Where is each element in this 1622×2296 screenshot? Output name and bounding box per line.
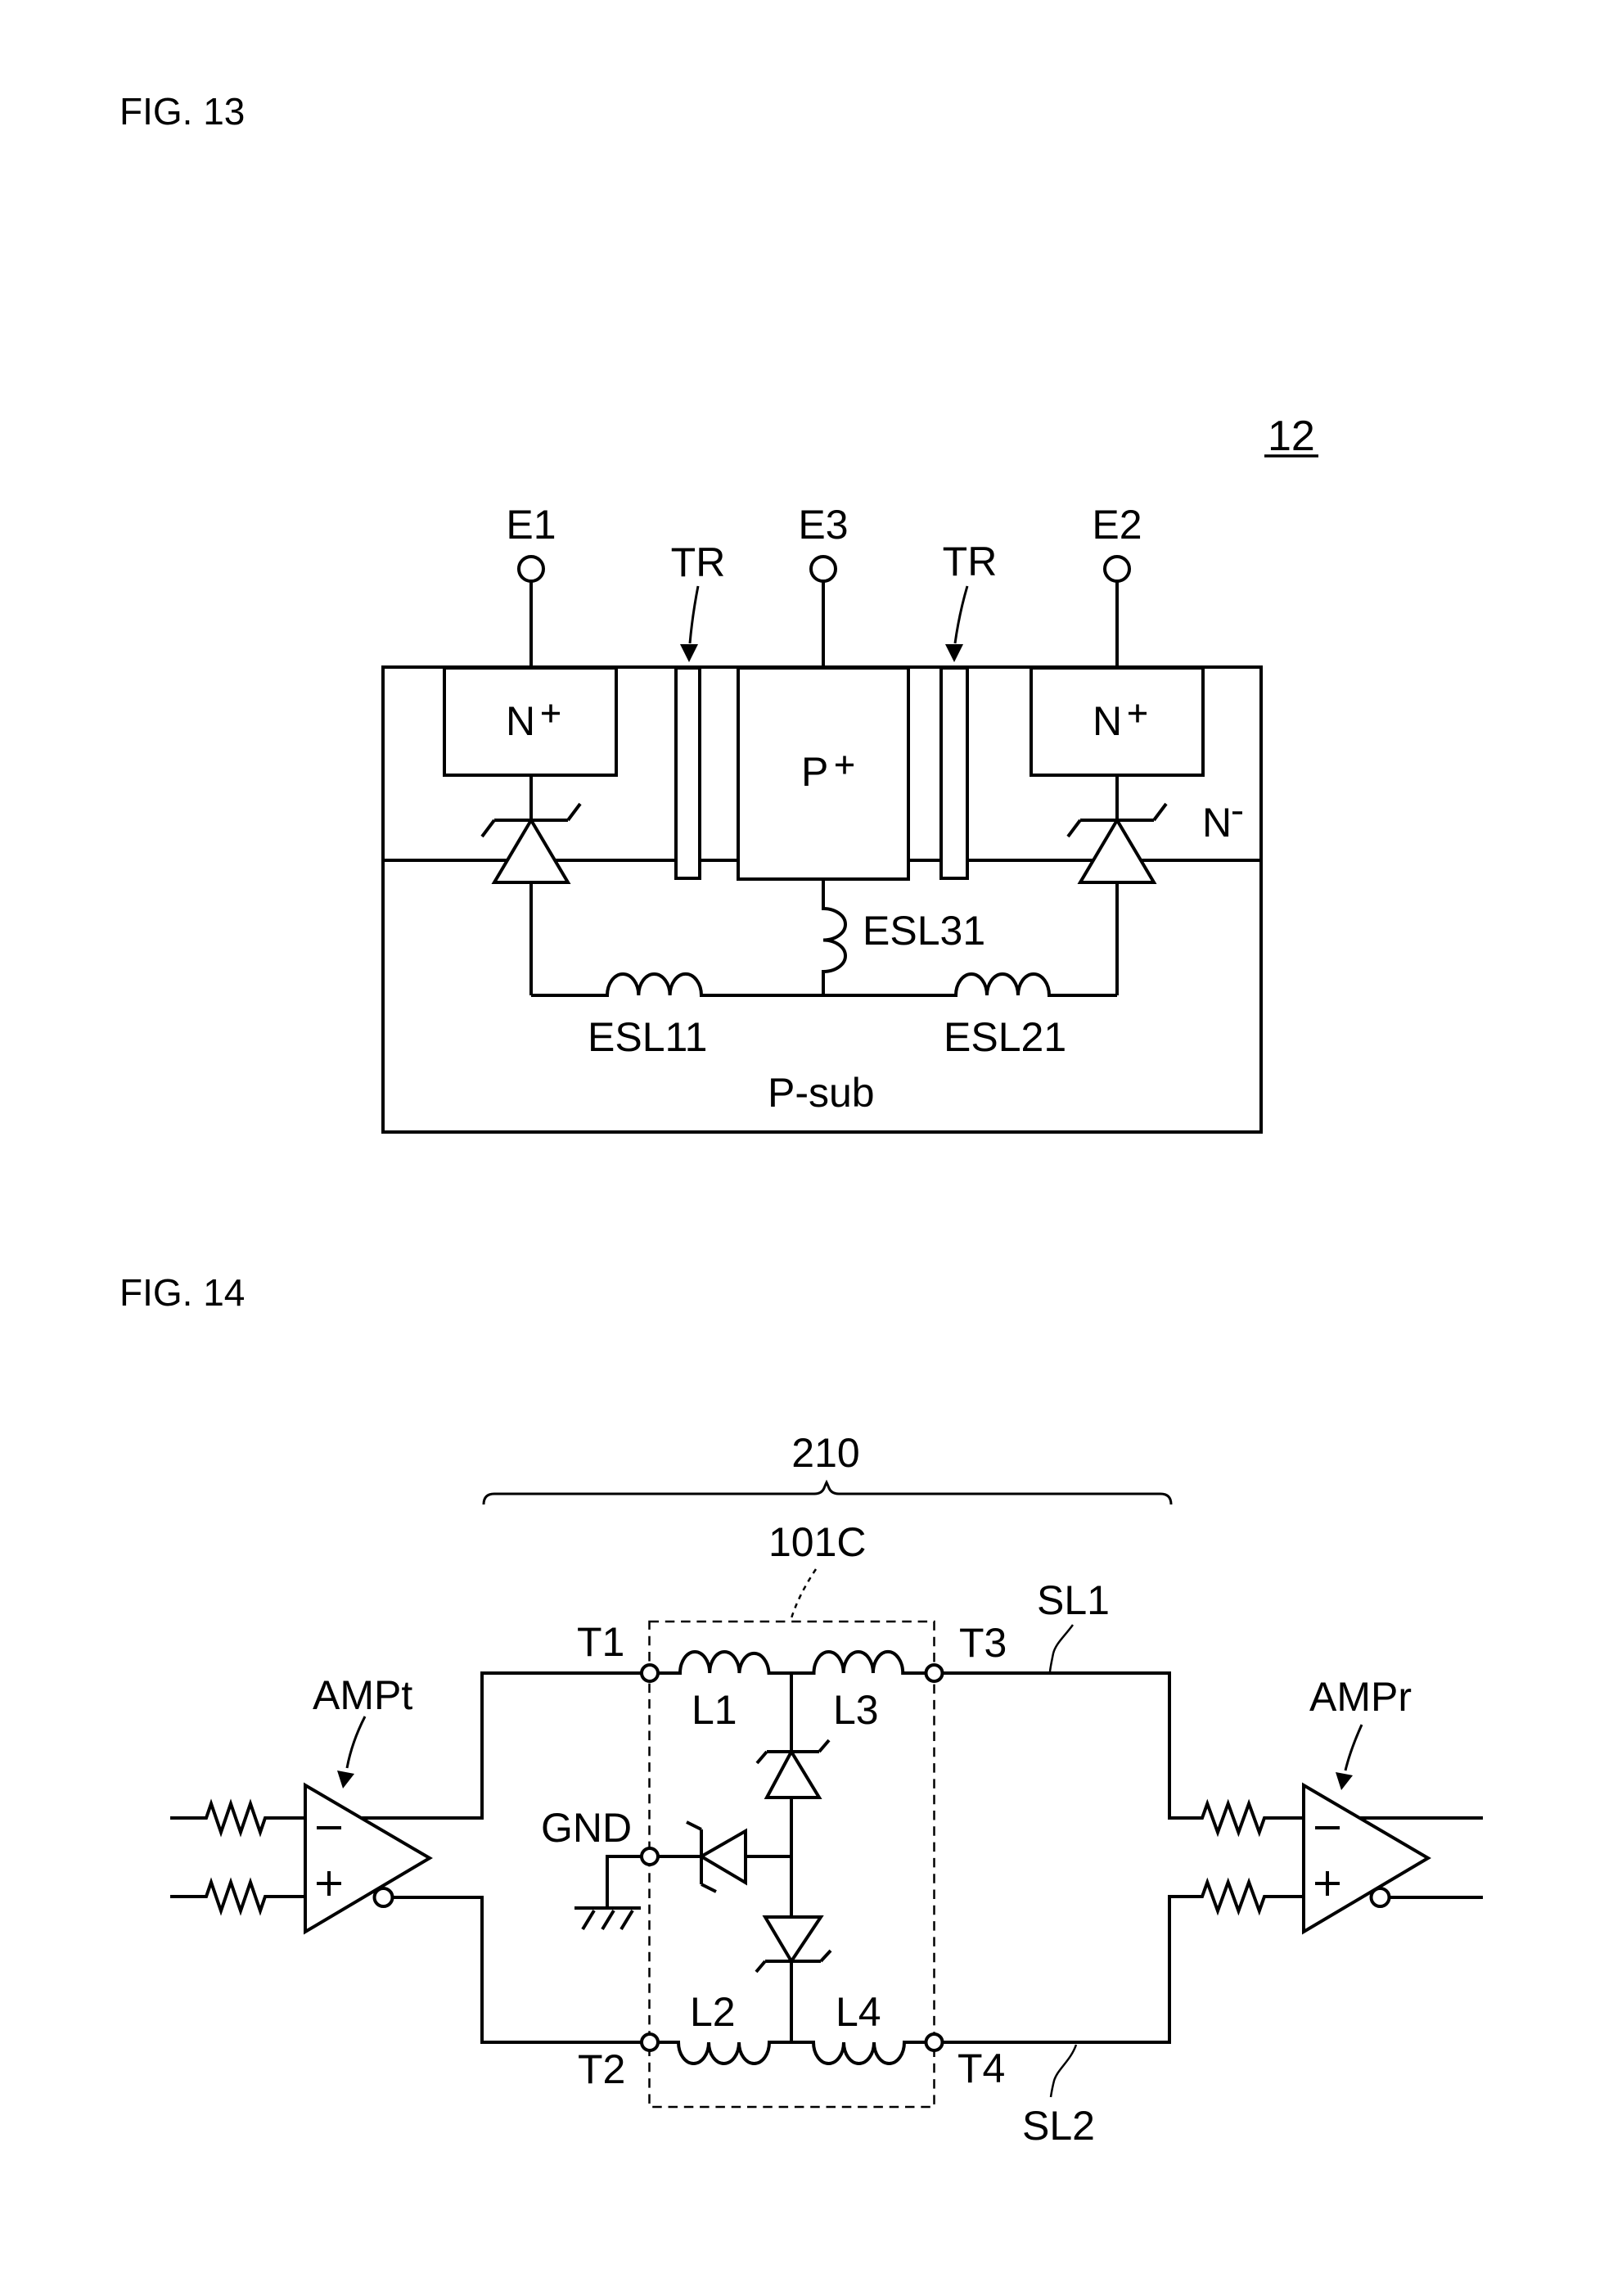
device body box (N- region) <box>383 667 1261 1132</box>
svg-text:L1: L1 <box>692 1687 737 1733</box>
AMPr plus input mark <box>1315 1871 1340 1896</box>
ground symbol <box>574 1908 641 1929</box>
terminal E3 <box>811 557 836 581</box>
trench TR left <box>676 668 700 878</box>
svg-text:T1: T1 <box>577 1619 624 1665</box>
substrate wire with inductors ESL11, ESL21 <box>531 974 1117 995</box>
wire GND branch <box>746 1855 791 1858</box>
svg-text:AMPt: AMPt <box>313 1672 412 1718</box>
svg-text:SL2: SL2 <box>1022 2103 1095 2149</box>
wire GND drop <box>607 1856 642 1908</box>
svg-text:ESL31: ESL31 <box>863 908 985 954</box>
svg-text:T3: T3 <box>959 1620 1007 1666</box>
trench TR right <box>941 668 967 878</box>
wire E2 stem <box>1115 581 1119 666</box>
wire AMPr output top <box>1359 1816 1483 1820</box>
label N+ left <box>506 698 560 744</box>
svg-text:E3: E3 <box>798 502 848 548</box>
wire AMPr output bottom <box>1390 1896 1484 1899</box>
leader SL1 <box>1050 1625 1073 1671</box>
N-/P-sub boundary line <box>385 859 1259 862</box>
svg-text:101C: 101C <box>768 1519 867 1565</box>
op-amp AMPr <box>1304 1785 1428 1932</box>
svg-text:AMPr: AMPr <box>1309 1674 1412 1720</box>
wire top shunt stem <box>790 1673 793 1752</box>
leader arrow AMPr <box>1336 1725 1362 1790</box>
AMPt inverted output circle <box>375 1888 393 1906</box>
node T1 <box>642 1665 658 1681</box>
svg-text:TR: TR <box>671 539 726 585</box>
leader SL2 <box>1051 2045 1076 2097</box>
terminal GND <box>642 1848 658 1865</box>
op-amp AMPt <box>305 1785 430 1932</box>
svg-text:FIG. 13: FIG. 13 <box>119 90 245 133</box>
svg-text:GND: GND <box>541 1805 632 1851</box>
inductor ESL31 (vertical, under P+) <box>823 879 845 995</box>
region P+ <box>738 668 908 879</box>
svg-text:N: N <box>1093 698 1122 744</box>
wire center stem <box>790 1798 793 1917</box>
leader 101C (dashed) <box>791 1569 816 1621</box>
wire E1 stem <box>529 581 533 666</box>
region N+ right <box>1031 668 1203 775</box>
AMPt minus input mark <box>317 1826 341 1829</box>
leader arrow TR right <box>945 586 967 662</box>
svg-text:E2: E2 <box>1092 502 1142 548</box>
zener diode D4 (bottom shunt) <box>756 1917 831 1972</box>
label N- <box>1202 800 1242 846</box>
svg-text:L3: L3 <box>833 1687 879 1733</box>
svg-text:L4: L4 <box>836 1989 881 2035</box>
dashed outline of component 101C <box>650 1622 935 2107</box>
svg-text:FIG. 14: FIG. 14 <box>119 1271 245 1314</box>
svg-text:TR: TR <box>943 539 998 584</box>
node T3 <box>926 1665 943 1681</box>
node T4 <box>926 2034 943 2050</box>
region N+ left <box>444 668 616 775</box>
label N+ right <box>1093 698 1147 744</box>
leader arrow TR left <box>680 586 698 662</box>
wire GND diode to terminal <box>658 1855 700 1858</box>
svg-text:12: 12 <box>1268 413 1315 460</box>
svg-text:E1: E1 <box>506 502 556 548</box>
wire AMPt inverted output to bottom line SL2 with inductors L2 L4 and resistor to AMPr <box>393 1883 1304 2064</box>
svg-text:T4: T4 <box>957 2046 1005 2091</box>
wire AMPt output to top line SL1 with inductors L1 L3 and resistor to AMPr <box>362 1652 1304 1833</box>
AMPr inverted output circle <box>1372 1888 1390 1906</box>
svg-text:T2: T2 <box>578 2046 625 2092</box>
node T2 <box>642 2034 658 2050</box>
svg-text:SL1: SL1 <box>1037 1577 1110 1623</box>
svg-text:L2: L2 <box>690 1989 736 2035</box>
svg-text:P: P <box>801 749 828 795</box>
AMPt plus input mark <box>317 1871 341 1896</box>
brace for 210 <box>484 1482 1171 1504</box>
zener diode D2 (under right N+) <box>1068 775 1166 995</box>
AMPr minus input mark <box>1315 1826 1340 1829</box>
leader arrow AMPt <box>337 1716 365 1789</box>
wire bottom shunt stem <box>790 1961 793 2042</box>
wire E3 stem <box>822 581 825 666</box>
svg-text:ESL11: ESL11 <box>588 1014 707 1060</box>
resistor at AMPt non-inverting input <box>170 1883 305 1911</box>
svg-text:210: 210 <box>791 1430 859 1476</box>
terminal E1 <box>519 557 543 581</box>
label P+ <box>801 749 854 795</box>
zener diode D3 (top shunt) <box>757 1740 829 1798</box>
svg-text:N: N <box>506 698 535 744</box>
resistor at AMPt inverting input <box>170 1804 305 1833</box>
svg-text:P-sub: P-sub <box>768 1070 875 1116</box>
svg-text:N: N <box>1202 800 1232 846</box>
zener diode D5 (to GND, pointing left) <box>687 1822 746 1892</box>
zener diode D1 (under left N+) <box>482 775 580 995</box>
terminal E2 <box>1105 557 1129 581</box>
svg-text:ESL21: ESL21 <box>944 1014 1066 1060</box>
